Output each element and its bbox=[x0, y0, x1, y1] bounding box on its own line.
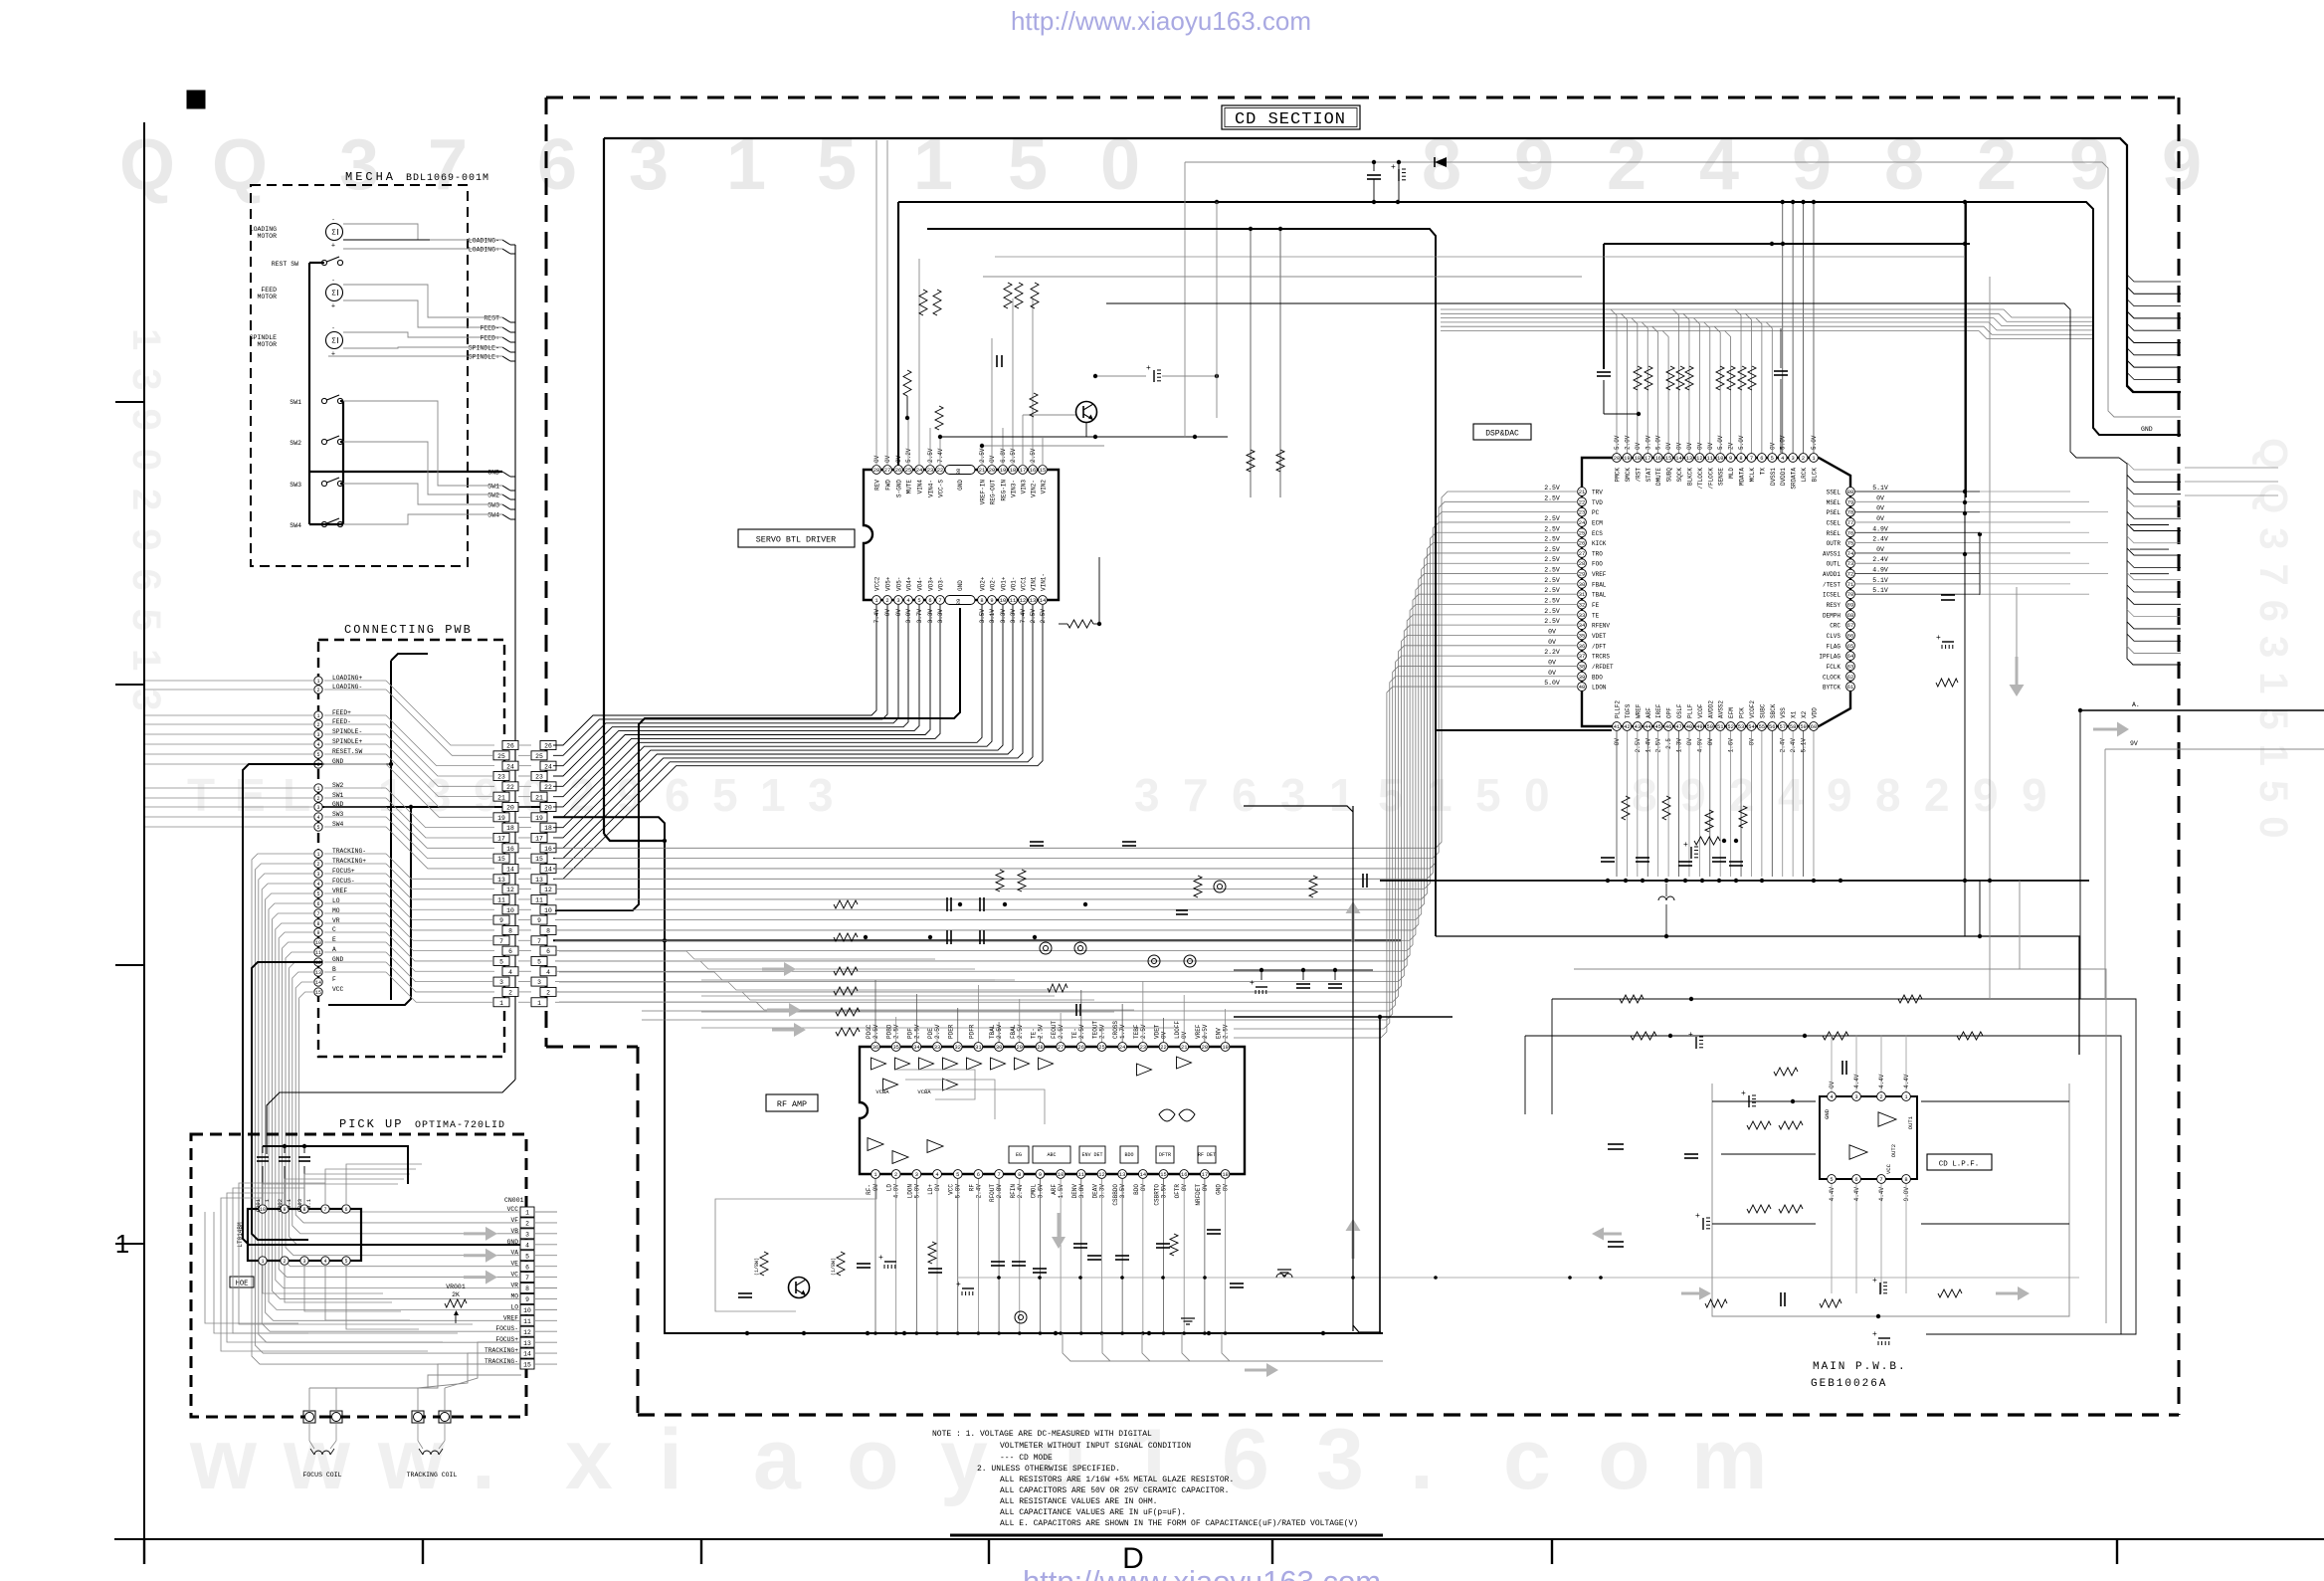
svg-text:24: 24 bbox=[544, 763, 552, 770]
svg-text:5: 5 bbox=[316, 891, 319, 897]
svg-text:4.4V: 4.4V bbox=[1853, 1074, 1860, 1088]
svg-text:2.5V: 2.5V bbox=[1010, 448, 1017, 463]
svg-text:3.6V: 3.6V bbox=[1037, 1184, 1044, 1199]
svg-text:892498299: 892498299 bbox=[1632, 769, 2047, 821]
svg-text:DVSS1: DVSS1 bbox=[1770, 468, 1777, 486]
svg-text:13: 13 bbox=[315, 970, 321, 976]
svg-text:0V: 0V bbox=[895, 609, 902, 617]
svg-text:2: 2 bbox=[508, 990, 512, 997]
svg-text:31: 31 bbox=[1579, 592, 1585, 598]
svg-text:4: 4 bbox=[1830, 1094, 1833, 1100]
svg-text:VCC: VCC bbox=[1885, 1163, 1892, 1174]
svg-text:30: 30 bbox=[956, 469, 962, 475]
svg-text:GND: GND bbox=[1216, 1184, 1223, 1195]
svg-text:1: 1 bbox=[874, 598, 877, 604]
svg-text:12: 12 bbox=[1696, 456, 1702, 462]
svg-text:/RST: /RST bbox=[1635, 468, 1642, 483]
svg-text:2: 2 bbox=[316, 722, 319, 728]
svg-text:/DFT: /DFT bbox=[1592, 643, 1607, 650]
svg-text:2: 2 bbox=[894, 1172, 897, 1178]
svg-text:14: 14 bbox=[544, 867, 552, 874]
svg-text:34: 34 bbox=[913, 1045, 919, 1051]
svg-text:2.5V: 2.5V bbox=[1655, 738, 1662, 753]
svg-text:8: 8 bbox=[1018, 1172, 1021, 1178]
svg-text:5.0V: 5.0V bbox=[1655, 435, 1662, 450]
svg-text:6: 6 bbox=[508, 948, 512, 955]
svg-text:22: 22 bbox=[544, 784, 552, 791]
svg-text:13: 13 bbox=[1119, 1172, 1125, 1178]
svg-text:2.5V: 2.5V bbox=[1544, 546, 1560, 553]
svg-text:2K: 2K bbox=[452, 1291, 460, 1298]
svg-text:7.4V: 7.4V bbox=[873, 609, 880, 624]
svg-text:RF DET: RF DET bbox=[1198, 1152, 1216, 1158]
svg-text:+: + bbox=[1695, 1212, 1700, 1221]
svg-text:0V: 0V bbox=[1876, 505, 1884, 512]
svg-text:VCC-S: VCC-S bbox=[938, 480, 945, 497]
svg-text:2. UNLESS OTHERWISE SPECIFIED.: 2. UNLESS OTHERWISE SPECIFIED. bbox=[977, 1465, 1120, 1474]
svg-text:PLLF: PLLF bbox=[1686, 703, 1693, 718]
svg-text:(1/8W): (1/8W) bbox=[831, 1258, 837, 1276]
svg-text:MECHA: MECHA bbox=[345, 170, 396, 184]
svg-text:STAT: STAT bbox=[1646, 468, 1652, 483]
svg-text:VREF: VREF bbox=[1195, 1024, 1202, 1039]
svg-text:2.5V: 2.5V bbox=[934, 1024, 941, 1039]
svg-text:25: 25 bbox=[535, 753, 543, 760]
svg-text:17: 17 bbox=[535, 836, 543, 843]
svg-text:59: 59 bbox=[1800, 724, 1806, 730]
svg-text:REG-IN: REG-IN bbox=[1001, 480, 1008, 501]
svg-text:0V: 0V bbox=[1707, 442, 1714, 450]
svg-text:VREF-IN: VREF-IN bbox=[980, 480, 987, 505]
svg-text:(1/8W): (1/8W) bbox=[754, 1258, 760, 1276]
svg-text:28: 28 bbox=[873, 468, 879, 474]
svg-text:7.4V: 7.4V bbox=[937, 448, 944, 463]
svg-text:3: 3 bbox=[316, 805, 319, 811]
svg-text:EFM: EFM bbox=[1728, 707, 1735, 718]
svg-text:8: 8 bbox=[546, 928, 550, 935]
svg-text:+: + bbox=[1391, 163, 1396, 172]
svg-text:+: + bbox=[1688, 1031, 1693, 1040]
svg-text:17: 17 bbox=[497, 836, 505, 843]
svg-text:SPINDLE: SPINDLE bbox=[250, 334, 277, 341]
svg-text:25: 25 bbox=[1579, 530, 1585, 536]
svg-text:9: 9 bbox=[1039, 1172, 1042, 1178]
svg-text:2.5V: 2.5V bbox=[1223, 1024, 1230, 1039]
svg-text:BLKCK: BLKCK bbox=[1686, 468, 1693, 486]
svg-text:0V: 0V bbox=[1635, 442, 1642, 450]
svg-text:13: 13 bbox=[1686, 456, 1692, 462]
svg-text:OSLF: OSLF bbox=[1676, 703, 1683, 718]
svg-text:PC: PC bbox=[1592, 509, 1600, 516]
svg-text:28: 28 bbox=[1037, 1045, 1043, 1051]
svg-text:LDON: LDON bbox=[906, 1184, 913, 1199]
svg-text:0V: 0V bbox=[1665, 442, 1672, 450]
svg-text:6: 6 bbox=[344, 1207, 347, 1213]
svg-text:51: 51 bbox=[1717, 724, 1723, 730]
svg-text:http://www.xiaoyu163.com: http://www.xiaoyu163.com bbox=[1011, 6, 1311, 36]
svg-text:21: 21 bbox=[1579, 490, 1585, 495]
svg-text:70: 70 bbox=[1847, 592, 1853, 598]
svg-text:VO1+: VO1+ bbox=[1001, 576, 1008, 591]
svg-text:ENV: ENV bbox=[1216, 1028, 1223, 1039]
svg-text:10: 10 bbox=[523, 1307, 531, 1314]
svg-text:5.0V: 5.0V bbox=[1811, 435, 1818, 450]
svg-text:+: + bbox=[331, 351, 335, 359]
svg-text:37: 37 bbox=[1579, 654, 1585, 660]
svg-text:CONNECTING PWB: CONNECTING PWB bbox=[344, 623, 473, 637]
svg-text:PDFR: PDFR bbox=[968, 1024, 975, 1039]
svg-text:77: 77 bbox=[1847, 520, 1853, 526]
svg-text:14: 14 bbox=[1040, 598, 1046, 604]
svg-text:BLCK: BLCK bbox=[1811, 468, 1818, 483]
svg-text:SBCK: SBCK bbox=[1770, 703, 1777, 718]
svg-text:DEMPH: DEMPH bbox=[1823, 612, 1840, 619]
svg-text:0V: 0V bbox=[989, 455, 996, 463]
svg-text:33: 33 bbox=[934, 1045, 940, 1051]
svg-text:LD: LD bbox=[886, 1184, 893, 1192]
svg-text:PDGC: PDGC bbox=[866, 1024, 872, 1039]
svg-text:15: 15 bbox=[535, 856, 543, 863]
svg-text:2.5V: 2.5V bbox=[1030, 448, 1037, 463]
svg-text:LOADING+: LOADING+ bbox=[469, 247, 499, 254]
svg-text:15: 15 bbox=[315, 990, 321, 996]
svg-text:2: 2 bbox=[546, 990, 550, 997]
svg-text:CD L.P.F.: CD L.P.F. bbox=[1939, 1161, 1980, 1169]
svg-text:D: D bbox=[1122, 1542, 1144, 1575]
svg-text:35: 35 bbox=[892, 1045, 898, 1051]
svg-text:TEBF: TEBF bbox=[1133, 1024, 1140, 1039]
svg-text:16: 16 bbox=[544, 846, 552, 853]
svg-text:REST SW: REST SW bbox=[272, 261, 298, 268]
svg-text:2.5V: 2.5V bbox=[1040, 609, 1047, 624]
svg-text:TE-: TE- bbox=[1030, 1028, 1037, 1039]
svg-text:34: 34 bbox=[1579, 623, 1585, 629]
svg-text:5.0V: 5.0V bbox=[913, 1184, 920, 1199]
svg-text:0V: 0V bbox=[1223, 1184, 1230, 1192]
svg-text:20: 20 bbox=[506, 805, 514, 812]
svg-text:0V: 0V bbox=[1686, 442, 1693, 450]
svg-text:TEOUT: TEOUT bbox=[1091, 1021, 1098, 1039]
svg-text:6: 6 bbox=[928, 598, 931, 604]
svg-text:RSEL: RSEL bbox=[1827, 530, 1841, 537]
svg-text:38: 38 bbox=[1579, 664, 1585, 670]
svg-text:5.0V: 5.0V bbox=[1717, 435, 1724, 450]
svg-text:8: 8 bbox=[1739, 456, 1742, 462]
svg-text:16: 16 bbox=[1181, 1172, 1187, 1178]
svg-text:HOE: HOE bbox=[236, 1281, 249, 1288]
svg-text:1: 1 bbox=[316, 679, 319, 685]
svg-text:+: + bbox=[1250, 979, 1255, 988]
svg-text:2.2V: 2.2V bbox=[1544, 649, 1560, 656]
svg-text:3: 3 bbox=[537, 979, 541, 986]
svg-text:SPINDLE-: SPINDLE- bbox=[469, 345, 499, 352]
svg-text:VO3-: VO3- bbox=[938, 577, 945, 591]
svg-text:DEAV: DEAV bbox=[1091, 1184, 1098, 1199]
svg-text:X2: X2 bbox=[1801, 710, 1808, 718]
svg-text:+: + bbox=[331, 243, 335, 251]
svg-text:2.4V: 2.4V bbox=[1017, 1184, 1024, 1199]
svg-text:NOTE : 1. VOLTAGE ARE DC-MEASU: NOTE : 1. VOLTAGE ARE DC-MEASURED WITH D… bbox=[932, 1430, 1152, 1439]
svg-text:SW3: SW3 bbox=[290, 482, 301, 489]
svg-text:CLVS: CLVS bbox=[1827, 633, 1841, 640]
svg-text:2.5V: 2.5V bbox=[1635, 738, 1642, 753]
svg-text:+: + bbox=[956, 1281, 961, 1289]
svg-text:CSEL: CSEL bbox=[1827, 519, 1841, 526]
svg-text:19: 19 bbox=[1624, 456, 1630, 462]
svg-text:31: 31 bbox=[975, 1045, 981, 1051]
svg-text:17: 17 bbox=[1202, 1172, 1208, 1178]
svg-text:6: 6 bbox=[525, 1264, 529, 1271]
svg-text:3.5V: 3.5V bbox=[1161, 1184, 1168, 1199]
svg-text:26: 26 bbox=[1078, 1045, 1084, 1051]
svg-text:RF: RF bbox=[968, 1184, 975, 1192]
svg-text:VC: VC bbox=[510, 1272, 518, 1279]
svg-text:52: 52 bbox=[1727, 724, 1733, 730]
svg-text:4.0V: 4.0V bbox=[893, 1184, 900, 1199]
svg-text:ICSEL: ICSEL bbox=[1823, 592, 1840, 599]
svg-text:1: 1 bbox=[316, 786, 319, 792]
svg-text:3.5V: 3.5V bbox=[979, 609, 986, 624]
svg-text:2: 2 bbox=[316, 688, 319, 693]
svg-text:PDF: PDF bbox=[906, 1028, 913, 1039]
svg-text:2.8V: 2.8V bbox=[996, 1184, 1003, 1199]
svg-text:30: 30 bbox=[996, 1045, 1002, 1051]
svg-text:5.0V: 5.0V bbox=[1738, 435, 1745, 450]
svg-text:VR: VR bbox=[510, 1283, 518, 1289]
svg-text:1: 1 bbox=[115, 1229, 129, 1259]
svg-text:3.3V: 3.3V bbox=[1098, 1184, 1105, 1199]
svg-text:OUTR: OUTR bbox=[1827, 540, 1841, 547]
svg-text:9.0V: 9.0V bbox=[1903, 1187, 1910, 1202]
svg-text:SQCK: SQCK bbox=[1676, 468, 1683, 483]
svg-text:24: 24 bbox=[916, 468, 922, 474]
svg-text:63: 63 bbox=[1847, 664, 1853, 670]
svg-text:TOFS: TOFS bbox=[1625, 703, 1632, 718]
svg-text:2: 2 bbox=[885, 598, 888, 604]
svg-text:TRCRS: TRCRS bbox=[1592, 654, 1610, 661]
svg-text:VIN4-: VIN4- bbox=[928, 480, 935, 497]
svg-text:14: 14 bbox=[523, 1351, 531, 1358]
svg-text:LOADING-: LOADING- bbox=[469, 238, 499, 245]
svg-text:SW2: SW2 bbox=[290, 440, 301, 447]
svg-text:VSS: VSS bbox=[1780, 707, 1787, 718]
svg-text:68: 68 bbox=[1847, 613, 1853, 619]
svg-text:11: 11 bbox=[315, 950, 321, 956]
svg-text:ARF: ARF bbox=[1051, 1184, 1058, 1195]
svg-text:0V: 0V bbox=[873, 455, 880, 463]
svg-text:2: 2 bbox=[316, 796, 319, 802]
svg-text:0V: 0V bbox=[1676, 442, 1683, 450]
svg-text:35: 35 bbox=[1579, 633, 1585, 639]
svg-text:6.8V: 6.8V bbox=[1000, 448, 1007, 463]
svg-text:5.1V: 5.1V bbox=[1801, 738, 1808, 753]
svg-text:20: 20 bbox=[989, 468, 995, 474]
svg-text:26: 26 bbox=[544, 743, 552, 750]
svg-text:0V: 0V bbox=[1548, 628, 1556, 635]
svg-text:0V: 0V bbox=[1202, 1184, 1209, 1192]
svg-text:SW3: SW3 bbox=[487, 502, 499, 509]
svg-text:15: 15 bbox=[1160, 1172, 1166, 1178]
svg-text:41: 41 bbox=[1614, 724, 1620, 730]
svg-text:ALL CAPACITANCE VALUES ARE IN: ALL CAPACITANCE VALUES ARE IN uF(p=uF). bbox=[1000, 1508, 1186, 1517]
svg-text:10: 10 bbox=[315, 940, 321, 946]
svg-text:4: 4 bbox=[935, 1172, 938, 1178]
svg-text:VOLTMETER WITHOUT INPUT SIGNAL: VOLTMETER WITHOUT INPUT SIGNAL CONDITION bbox=[1000, 1442, 1191, 1451]
svg-text:C003: C003 bbox=[296, 1199, 303, 1212]
svg-text:62: 62 bbox=[1847, 675, 1853, 681]
svg-text:2.0V: 2.0V bbox=[1624, 435, 1631, 450]
svg-text:0V: 0V bbox=[1181, 1184, 1188, 1192]
svg-text:-: - bbox=[331, 325, 335, 332]
svg-text:61: 61 bbox=[1847, 685, 1853, 691]
svg-text:PLLF2: PLLF2 bbox=[1615, 700, 1622, 718]
svg-text:53: 53 bbox=[1738, 724, 1744, 730]
svg-text:ALL RESISTORS ARE 1/16W +5% ME: ALL RESISTORS ARE 1/16W +5% METAL GLAZE … bbox=[1000, 1476, 1234, 1484]
svg-text:MDATA: MDATA bbox=[1739, 468, 1746, 486]
svg-text:5: 5 bbox=[1830, 1177, 1833, 1183]
svg-text:VCBA: VCBA bbox=[875, 1088, 889, 1095]
svg-text:3: 3 bbox=[896, 598, 899, 604]
svg-text:79: 79 bbox=[1847, 499, 1853, 505]
svg-text:PDBD: PDBD bbox=[886, 1024, 893, 1039]
svg-text:4: 4 bbox=[546, 969, 550, 976]
svg-text:1: 1 bbox=[316, 713, 319, 719]
svg-text:2V: 2V bbox=[1728, 442, 1735, 450]
svg-text:CROSS: CROSS bbox=[1112, 1021, 1119, 1039]
svg-text:+: + bbox=[878, 1254, 883, 1263]
svg-text:ABC: ABC bbox=[1047, 1152, 1056, 1158]
svg-text:2: 2 bbox=[1802, 456, 1805, 462]
svg-text:1.4V: 1.4V bbox=[1645, 738, 1651, 753]
svg-text:5: 5 bbox=[499, 959, 503, 966]
svg-text:VIN4: VIN4 bbox=[917, 480, 924, 494]
svg-text:CD SECTION: CD SECTION bbox=[1235, 110, 1346, 129]
svg-text:10: 10 bbox=[1717, 456, 1723, 462]
svg-text:0V: 0V bbox=[1548, 639, 1556, 646]
svg-text:36: 36 bbox=[872, 1045, 878, 1051]
svg-text:TRACKING COIL: TRACKING COIL bbox=[407, 1472, 458, 1479]
svg-text:22: 22 bbox=[937, 468, 943, 474]
svg-text:GND: GND bbox=[507, 1239, 519, 1246]
svg-text:VCOF2: VCOF2 bbox=[1749, 700, 1756, 718]
svg-text:18: 18 bbox=[506, 825, 514, 832]
svg-text:20: 20 bbox=[1202, 1045, 1208, 1051]
svg-text:3: 3 bbox=[316, 732, 319, 738]
svg-text:VIN1: VIN1 bbox=[1031, 576, 1038, 591]
svg-text:12: 12 bbox=[523, 1329, 531, 1336]
svg-text:FEED: FEED bbox=[261, 287, 277, 294]
svg-text:2.5V: 2.5V bbox=[1140, 1024, 1147, 1039]
svg-text:GND: GND bbox=[1824, 1108, 1831, 1119]
svg-text:65: 65 bbox=[1847, 644, 1853, 650]
svg-text:VDET: VDET bbox=[1154, 1024, 1161, 1039]
svg-text:+: + bbox=[1872, 1277, 1877, 1285]
svg-text:SUBC: SUBC bbox=[1759, 703, 1766, 718]
svg-text:2.5V: 2.5V bbox=[1037, 1024, 1044, 1039]
svg-text:66: 66 bbox=[1847, 633, 1853, 639]
svg-text:5: 5 bbox=[1771, 456, 1774, 462]
svg-text:ARF: ARF bbox=[1646, 707, 1652, 718]
svg-text:2.5V: 2.5V bbox=[1202, 1024, 1209, 1039]
svg-text:VR001: VR001 bbox=[446, 1284, 466, 1290]
svg-text:64: 64 bbox=[1847, 654, 1853, 660]
svg-text:0V: 0V bbox=[1161, 1031, 1168, 1039]
svg-text:24: 24 bbox=[506, 763, 514, 770]
svg-text:VIN1-: VIN1- bbox=[1041, 573, 1048, 591]
svg-text:4.9V: 4.9V bbox=[1872, 525, 1888, 532]
svg-text:www.xiaoyu163.com: www.xiaoyu163.com bbox=[189, 1412, 1767, 1507]
svg-text:SW1: SW1 bbox=[487, 484, 499, 491]
svg-text:13: 13 bbox=[1030, 598, 1036, 604]
svg-text:0V: 0V bbox=[1686, 738, 1693, 746]
svg-text:--- CD MODE: --- CD MODE bbox=[1000, 1454, 1053, 1463]
svg-text:REV: REV bbox=[874, 480, 881, 491]
svg-text:4.9V: 4.9V bbox=[1696, 738, 1703, 753]
svg-text:2.5V: 2.5V bbox=[1544, 608, 1560, 615]
svg-text:22: 22 bbox=[1160, 1045, 1166, 1051]
svg-text:3.3V: 3.3V bbox=[927, 609, 934, 624]
svg-text:2.4V: 2.4V bbox=[1790, 738, 1797, 753]
svg-text:7: 7 bbox=[499, 938, 503, 945]
svg-text:0V: 0V bbox=[1696, 442, 1703, 450]
svg-text:1: 1 bbox=[525, 1210, 529, 1217]
svg-text:VE: VE bbox=[510, 1261, 518, 1268]
svg-text:5.2V: 5.2V bbox=[905, 448, 912, 463]
svg-text:32: 32 bbox=[954, 1045, 960, 1051]
svg-text:BDO: BDO bbox=[1592, 674, 1603, 681]
svg-text:23: 23 bbox=[1140, 1045, 1146, 1051]
svg-text:4: 4 bbox=[1781, 456, 1784, 462]
svg-text:3.3V: 3.3V bbox=[1000, 609, 1007, 624]
svg-text:AVSS2: AVSS2 bbox=[1718, 700, 1725, 718]
svg-text:12: 12 bbox=[544, 887, 552, 893]
svg-text:11: 11 bbox=[497, 897, 505, 904]
svg-text:2: 2 bbox=[316, 862, 319, 868]
svg-text:2.5V: 2.5V bbox=[1544, 577, 1560, 584]
svg-text:60: 60 bbox=[1811, 724, 1817, 730]
svg-text:+: + bbox=[1146, 364, 1151, 373]
svg-text:7: 7 bbox=[1750, 456, 1753, 462]
svg-text:SUBQ: SUBQ bbox=[1666, 468, 1673, 483]
svg-text:ALL E. CAPACITORS ARE SHOWN IN: ALL E. CAPACITORS ARE SHOWN IN THE FORM … bbox=[1000, 1519, 1358, 1528]
svg-text:5: 5 bbox=[525, 1253, 529, 1260]
svg-text:EG: EG bbox=[1016, 1152, 1022, 1158]
svg-text:20: 20 bbox=[544, 805, 552, 812]
svg-text:2.5V: 2.5V bbox=[893, 1024, 900, 1039]
svg-text:9: 9 bbox=[525, 1296, 529, 1303]
svg-text:80: 80 bbox=[1847, 490, 1853, 495]
svg-text:SW4: SW4 bbox=[487, 512, 499, 519]
svg-text:TBAL: TBAL bbox=[1592, 592, 1607, 599]
svg-text:1.6V: 1.6V bbox=[1728, 738, 1735, 753]
svg-text:76: 76 bbox=[1847, 530, 1853, 536]
svg-text:21: 21 bbox=[535, 794, 543, 801]
svg-text:24: 24 bbox=[1579, 520, 1585, 526]
svg-text:10: 10 bbox=[544, 907, 552, 914]
svg-text:GND: GND bbox=[957, 480, 964, 491]
svg-text:1: 1 bbox=[316, 852, 319, 858]
svg-text:22: 22 bbox=[506, 784, 514, 791]
svg-text:3.0V: 3.0V bbox=[905, 609, 912, 624]
svg-text:42: 42 bbox=[1624, 724, 1630, 730]
svg-text:11: 11 bbox=[1078, 1172, 1084, 1178]
svg-text:VREF: VREF bbox=[1592, 571, 1607, 578]
svg-text:2.5V: 2.5V bbox=[1544, 618, 1560, 625]
svg-text:71: 71 bbox=[1847, 582, 1853, 588]
svg-text:5.1V: 5.1V bbox=[1872, 577, 1888, 584]
svg-text:14: 14 bbox=[315, 980, 321, 986]
svg-text:4.4V: 4.4V bbox=[1878, 1187, 1885, 1202]
